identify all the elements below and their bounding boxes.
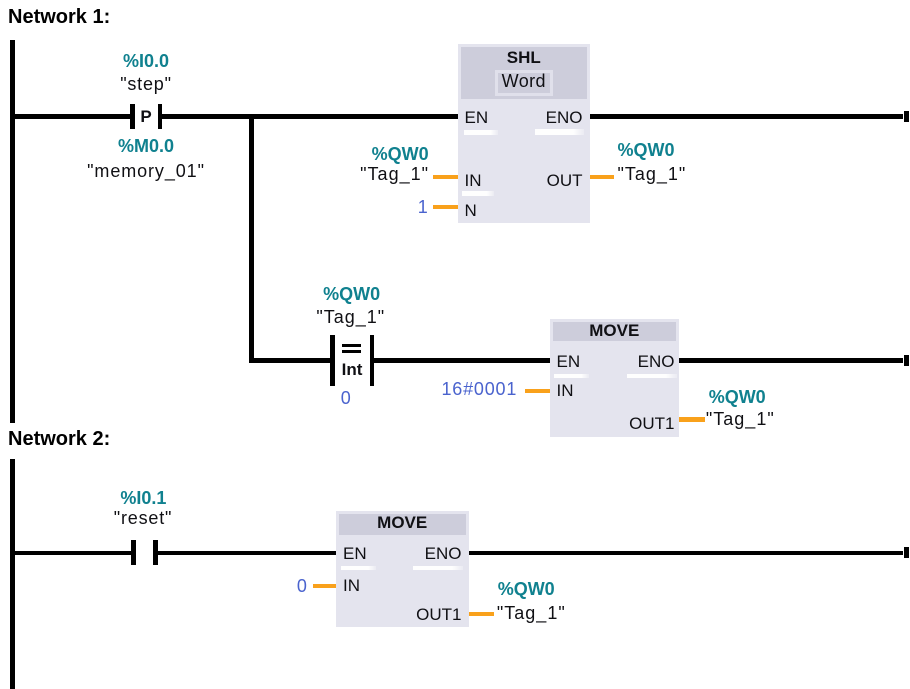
wire SHL ENO to right terminal — [590, 114, 903, 119]
node "Tag_1" label right of MOVE2 — [497, 603, 566, 623]
wire orange MOVE1 OUT1 stub — [679, 417, 705, 422]
node %QW0 label right of MOVE1 — [709, 387, 766, 407]
contact reset left bar — [131, 540, 136, 565]
node "reset" label — [63, 508, 223, 528]
wire orange SHL OUT stub — [590, 175, 614, 179]
pin ENO of MOVE2 — [302, 544, 462, 564]
node "memory_01" label — [66, 161, 226, 181]
wire left power rail network 2 — [10, 459, 15, 689]
contact P right bar — [158, 104, 163, 129]
wire MOVE1 ENO to right terminal — [679, 358, 903, 363]
node %I0.1 label — [63, 488, 223, 508]
value 0 at MOVE2 IN — [148, 576, 308, 596]
block MOVE1 title — [534, 321, 694, 341]
block MOVE2 title — [322, 513, 482, 533]
pin handle strip under IN of SHL — [462, 191, 494, 196]
pin handle strip under EN of SHL — [464, 130, 498, 136]
pin OUT of SHL — [423, 171, 583, 191]
block SHL — [458, 44, 591, 223]
pin OUT1 of MOVE1 — [515, 414, 675, 434]
wire rung3 contact to MOVE2 EN — [158, 551, 337, 556]
pin EN of SHL — [465, 108, 489, 128]
terminal end bar rung3 — [904, 547, 909, 558]
node "Tag_1" label right of MOVE1 — [706, 409, 775, 429]
pin OUT1 of MOVE2 — [302, 605, 462, 625]
comparator contact left bar — [330, 335, 335, 386]
contact P left bar — [130, 104, 135, 129]
wire left power rail network 1 — [10, 40, 15, 423]
pin handle strip under EN of MOVE2 — [341, 566, 376, 571]
pin IN of MOVE1 — [557, 381, 574, 401]
node "Tag_1" label above comparator — [271, 307, 431, 327]
pin handle strip under ENO of MOVE1 — [627, 374, 677, 379]
terminal end bar rung1 — [904, 111, 909, 122]
wire orange MOVE1 IN stub — [525, 389, 550, 393]
pin ENO of MOVE1 — [515, 352, 675, 372]
value 16#0001 at MOVE1 IN — [357, 379, 517, 399]
wire orange MOVE2 IN stub — [313, 584, 336, 588]
node %QW0 label above comparator — [272, 284, 432, 304]
node "Tag_1" label right of SHL — [618, 164, 687, 184]
terminal end bar rung2 — [904, 355, 909, 366]
wire rung1 rail to contact — [10, 114, 130, 119]
pin EN of MOVE1 — [557, 352, 581, 372]
comparator contact right bar — [370, 335, 375, 386]
node %QW0 label right of SHL — [618, 140, 675, 160]
comparator Int text — [272, 360, 432, 380]
wire MOVE2 ENO to right terminal — [469, 551, 904, 556]
node "Tag_1" label left of SHL — [269, 164, 429, 184]
pin handle strip under EN of MOVE1 — [554, 374, 589, 379]
pin N of SHL — [465, 201, 477, 221]
network 1 label — [8, 5, 110, 29]
value 0 below comparator — [266, 388, 426, 408]
node %QW0 label left of SHL — [269, 144, 429, 164]
wire branch vertical — [249, 114, 254, 363]
wire rung1 contact to SHL EN — [162, 114, 458, 119]
contact P letter — [66, 107, 226, 127]
wire rung2 branch to comparator — [249, 358, 330, 363]
node %I0.0 label — [66, 51, 226, 71]
comparator == text — [342, 344, 361, 347]
block MOVE2 — [336, 511, 469, 628]
node "step" label — [66, 74, 226, 94]
wire orange SHL IN stub — [433, 175, 458, 179]
wire rung2 comparator to MOVE1 EN — [374, 358, 550, 363]
pin EN of MOVE2 — [343, 544, 367, 564]
wire orange SHL N stub — [433, 205, 458, 209]
contact reset right bar — [153, 540, 158, 565]
node %QW0 label right of MOVE2 — [498, 579, 555, 599]
pin IN of MOVE2 — [343, 576, 360, 596]
network 2 label — [8, 427, 110, 451]
pin IN of SHL — [465, 171, 482, 191]
block MOVE1 — [550, 319, 680, 437]
pin handle strip under ENO of MOVE2 — [413, 566, 463, 571]
wire rung3 rail to contact — [10, 551, 131, 556]
block SHL Word type box — [495, 70, 553, 96]
wire orange MOVE2 OUT1 stub — [469, 612, 494, 616]
pin ENO of SHL — [423, 108, 583, 128]
block SHL title — [444, 48, 604, 68]
value 1 at N input — [269, 197, 429, 217]
pin handle strip under ENO of SHL — [535, 129, 584, 135]
node %M0.0 label — [66, 136, 226, 156]
